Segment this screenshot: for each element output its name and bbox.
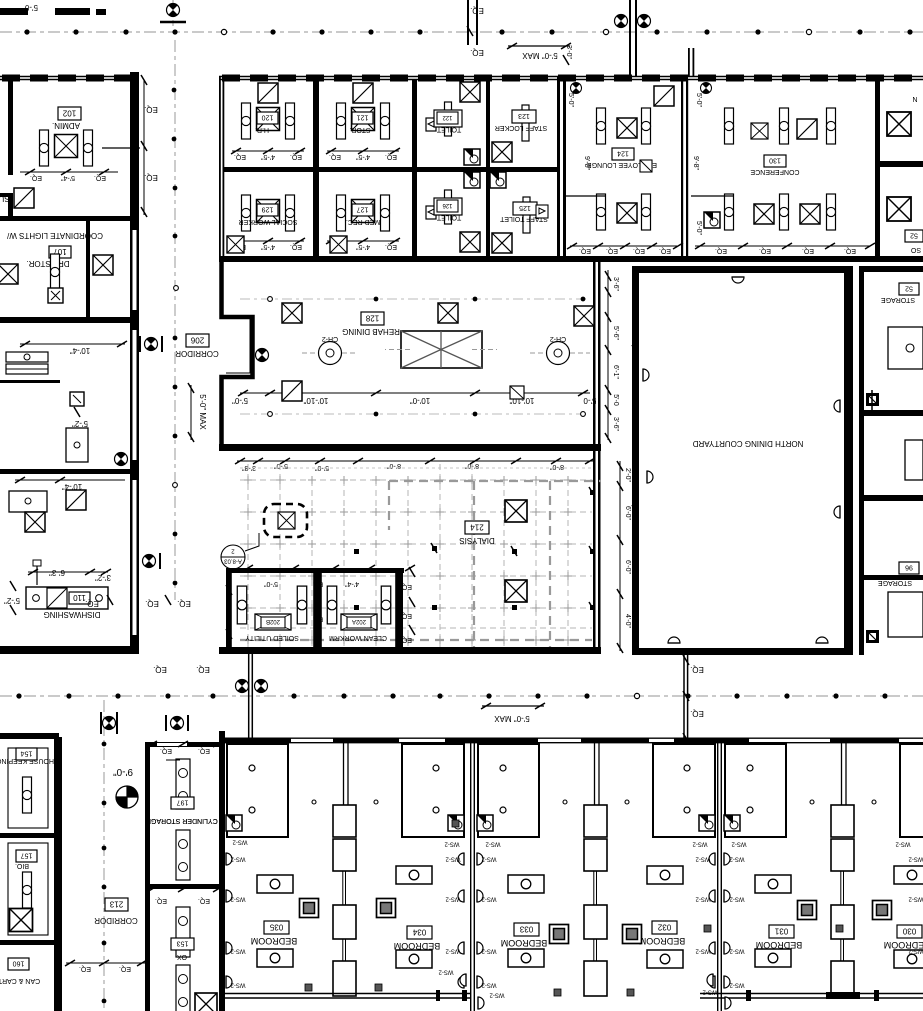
- svg-text:EQ.: EQ.: [198, 897, 210, 904]
- svg-text:031: 031: [774, 927, 788, 936]
- svg-text:WS-2: WS-2: [489, 992, 505, 998]
- svg-text:EQ.: EQ.: [94, 174, 106, 181]
- svg-text:5'-2": 5'-2": [4, 596, 20, 605]
- svg-text:EQ.: EQ.: [385, 243, 397, 250]
- svg-text:153: 153: [177, 940, 189, 947]
- svg-text:5'-0": 5'-0": [567, 93, 574, 107]
- svg-text:H.R.: H.R.: [255, 126, 269, 133]
- svg-text:6'-1": 6'-1": [612, 365, 619, 379]
- svg-text:5'-0: 5'-0: [583, 396, 597, 405]
- svg-text:BEDROOM: BEDROOM: [756, 940, 803, 950]
- svg-text:WS-2: WS-2: [908, 948, 923, 954]
- svg-text:CORRIDOR: CORRIDOR: [94, 916, 138, 925]
- svg-text:WS-2: WS-2: [692, 841, 708, 847]
- svg-text:CLEAN WORKRM: CLEAN WORKRM: [329, 634, 387, 641]
- svg-text:WS-2: WS-2: [481, 982, 497, 988]
- svg-text:126: 126: [442, 202, 453, 208]
- svg-text:3'-6": 3'-6": [612, 277, 619, 291]
- svg-text:WS-2: WS-2: [908, 856, 923, 862]
- svg-text:4'-5": 4'-5": [356, 153, 370, 160]
- svg-text:122: 122: [442, 114, 453, 120]
- svg-text:206: 206: [190, 336, 204, 345]
- svg-text:123: 123: [518, 112, 530, 119]
- svg-text:STOR.: STOR.: [349, 126, 370, 133]
- svg-text:154: 154: [21, 750, 33, 757]
- svg-text:WS-2: WS-2: [695, 856, 711, 862]
- svg-text:EQ.: EQ.: [470, 48, 484, 57]
- svg-text:4'-4": 4'-4": [345, 580, 359, 587]
- svg-text:WS-2: WS-2: [729, 982, 745, 988]
- svg-text:BEDROOM: BEDROOM: [501, 938, 548, 948]
- svg-text:52: 52: [910, 232, 918, 239]
- svg-text:TOILET: TOILET: [436, 214, 461, 221]
- svg-text:SU: SU: [0, 194, 10, 203]
- svg-text:MED REC.: MED REC.: [346, 218, 380, 225]
- svg-text:EQ.: EQ.: [85, 599, 99, 608]
- svg-text:10'-0": 10'-0": [410, 396, 431, 405]
- svg-text:102: 102: [62, 109, 76, 118]
- svg-text:EQ.: EQ.: [177, 599, 191, 608]
- svg-text:EQ.: EQ.: [715, 247, 727, 254]
- svg-text:4'-0": 4'-0": [624, 614, 631, 628]
- svg-text:5'-0" MAX: 5'-0" MAX: [198, 394, 207, 430]
- svg-text:121: 121: [357, 114, 369, 121]
- svg-text:BIO.: BIO.: [15, 862, 29, 869]
- svg-text:WS-2: WS-2: [230, 948, 246, 954]
- svg-text:EQ.: EQ.: [155, 897, 167, 904]
- svg-text:SO: SO: [910, 246, 921, 253]
- svg-text:BEDROOM: BEDROOM: [394, 941, 441, 951]
- svg-text:SOCIAL WORKER: SOCIAL WORKER: [239, 218, 298, 225]
- svg-text:5'-0": 5'-0": [274, 462, 288, 469]
- svg-text:035: 035: [269, 923, 283, 932]
- svg-text:EQ.: EQ.: [119, 965, 131, 972]
- svg-text:202A: 202A: [352, 618, 366, 624]
- svg-text:WS-2: WS-2: [481, 856, 497, 862]
- svg-text:52: 52: [905, 285, 913, 292]
- svg-text:STORAGE: STORAGE: [878, 579, 912, 586]
- svg-text:6'-0": 6'-0": [624, 560, 631, 574]
- svg-text:5'-0": 5'-0": [264, 580, 278, 587]
- svg-text:5'-0" MAX: 5'-0" MAX: [494, 714, 530, 723]
- svg-text:EQ.: EQ.: [802, 247, 814, 254]
- svg-text:3'-6": 3'-6": [612, 417, 619, 431]
- svg-text:034: 034: [412, 928, 426, 937]
- svg-text:WS-2: WS-2: [445, 948, 461, 954]
- svg-text:WS-2: WS-2: [230, 856, 246, 862]
- svg-text:EQ.: EQ.: [290, 153, 302, 160]
- svg-text:EQ.: EQ.: [160, 747, 172, 754]
- svg-text:3'-0": 3'-0": [565, 45, 572, 59]
- svg-text:WS-2: WS-2: [230, 982, 246, 988]
- svg-text:EQ.: EQ.: [606, 247, 618, 254]
- svg-text:8'-0": 8'-0": [550, 463, 564, 470]
- svg-text:WS-2: WS-2: [729, 856, 745, 862]
- svg-text:STORAGE: STORAGE: [881, 296, 915, 303]
- svg-text:5'-6": 5'-6": [612, 326, 619, 340]
- svg-text:CAN & CART: CAN & CART: [0, 977, 40, 984]
- svg-text:WS-2: WS-2: [695, 948, 711, 954]
- svg-text:127: 127: [357, 206, 369, 213]
- svg-text:WS-2: WS-2: [481, 948, 497, 954]
- svg-text:5'-0: 5'-0: [612, 394, 619, 406]
- svg-text:WS-2: WS-2: [232, 839, 248, 845]
- svg-text:COORDINATE LIGHTS W/: COORDINATE LIGHTS W/: [6, 231, 103, 240]
- svg-text:EQ.: EQ.: [79, 965, 91, 972]
- svg-text:N: N: [912, 95, 917, 102]
- svg-text:EQ.: EQ.: [290, 243, 302, 250]
- svg-text:EQ.: EQ.: [659, 247, 671, 254]
- svg-text:5'-0": 5'-0": [695, 93, 702, 107]
- svg-text:EQ.: EQ.: [844, 247, 856, 254]
- svg-text:WS-2: WS-2: [445, 856, 461, 862]
- svg-text:EQ.: EQ.: [470, 6, 484, 15]
- svg-text:WS-2: WS-2: [695, 896, 711, 902]
- svg-text:5'-2": 5'-2": [72, 419, 88, 428]
- svg-text:2'-0": 2'-0": [624, 468, 631, 482]
- svg-text:CONFERENCE: CONFERENCE: [750, 168, 799, 175]
- svg-text:ADMIN.: ADMIN.: [52, 121, 80, 130]
- svg-text:STAFF LOCKER: STAFF LOCKER: [495, 124, 547, 131]
- svg-text:WS-2: WS-2: [485, 841, 501, 847]
- svg-text:OX.: OX.: [175, 953, 187, 960]
- svg-text:WS-2: WS-2: [729, 948, 745, 954]
- svg-text:9'-8": 9'-8": [583, 156, 590, 170]
- svg-text:EQ.: EQ.: [759, 247, 771, 254]
- svg-text:213: 213: [109, 900, 123, 909]
- svg-text:202B: 202B: [266, 618, 280, 624]
- svg-text:WS-2: WS-2: [444, 841, 460, 847]
- svg-text:157: 157: [21, 852, 33, 859]
- svg-text:BEDROOM: BEDROOM: [639, 936, 686, 946]
- svg-text:EQ.: EQ.: [690, 709, 704, 718]
- svg-text:WS-2: WS-2: [731, 841, 747, 847]
- svg-text:EQ.: EQ.: [633, 247, 645, 254]
- svg-text:120: 120: [262, 114, 274, 121]
- svg-text:6'-0": 6'-0": [624, 506, 631, 520]
- svg-text:96: 96: [905, 564, 913, 571]
- svg-text:EQ.: EQ.: [196, 665, 210, 674]
- svg-text:033: 033: [519, 925, 533, 934]
- svg-text:032: 032: [657, 923, 671, 932]
- svg-text:EQ.: EQ.: [153, 665, 167, 674]
- svg-text:EQ.: EQ.: [145, 599, 159, 608]
- svg-text:124: 124: [617, 150, 629, 157]
- svg-text:NORTH DINING COURTYARD: NORTH DINING COURTYARD: [692, 439, 803, 448]
- svg-text:5'-0" MAX: 5'-0" MAX: [522, 51, 558, 60]
- svg-text:10'-10": 10'-10": [303, 396, 328, 405]
- svg-text:EQ.: EQ.: [690, 665, 704, 674]
- svg-text:REHAB DINING: REHAB DINING: [342, 327, 400, 336]
- svg-text:9'-0": 9'-0": [113, 766, 133, 777]
- svg-text:128: 128: [365, 314, 379, 323]
- svg-text:EQ.: EQ.: [144, 173, 158, 182]
- svg-text:BEDROOM: BEDROOM: [251, 936, 298, 946]
- svg-text:4'-5": 4'-5": [356, 243, 370, 250]
- svg-text:EQ.: EQ.: [329, 153, 341, 160]
- svg-text:10'-4": 10'-4": [70, 346, 91, 355]
- svg-text:A-8.03: A-8.03: [224, 558, 242, 564]
- svg-text:EQ.: EQ.: [313, 616, 324, 622]
- svg-text:5'-0": 5'-0": [695, 221, 702, 235]
- svg-text:5'-4": 5'-4": [61, 174, 75, 181]
- svg-text:EQ.: EQ.: [30, 174, 42, 181]
- svg-text:CORRIDOR: CORRIDOR: [175, 349, 219, 358]
- svg-text:DISHWASHING: DISHWASHING: [43, 610, 100, 619]
- svg-text:125: 125: [519, 204, 531, 211]
- svg-text:214: 214: [470, 523, 484, 532]
- svg-text:WS-2: WS-2: [895, 841, 911, 847]
- svg-text:WS-2: WS-2: [481, 896, 497, 902]
- svg-text:EQ.: EQ.: [579, 247, 591, 254]
- svg-text:WS-2: WS-2: [438, 969, 454, 975]
- svg-text:4'-5": 4'-5": [261, 153, 275, 160]
- svg-text:197: 197: [177, 799, 189, 806]
- svg-text:WS-2: WS-2: [445, 896, 461, 902]
- svg-text:EQ.: EQ.: [234, 153, 246, 160]
- svg-text:030: 030: [902, 927, 916, 936]
- svg-text:WS-2: WS-2: [729, 896, 745, 902]
- svg-text:EQ.: EQ.: [144, 105, 158, 114]
- svg-text:4'-5": 4'-5": [261, 243, 275, 250]
- svg-text:130: 130: [769, 157, 781, 164]
- svg-text:WS-2: WS-2: [908, 896, 923, 902]
- svg-text:EQ.: EQ.: [313, 581, 324, 587]
- svg-text:9'-8": 9'-8": [692, 156, 699, 170]
- svg-text:EQ.: EQ.: [198, 747, 210, 754]
- svg-text:TOILET: TOILET: [436, 126, 461, 133]
- svg-text:SOILED UTILITY: SOILED UTILITY: [245, 634, 299, 641]
- svg-text:110: 110: [73, 593, 86, 602]
- svg-text:CYLINDER STORAGE: CYLINDER STORAGE: [146, 817, 218, 824]
- svg-text:EQ.: EQ.: [385, 153, 397, 160]
- svg-text:DRY STOR.: DRY STOR.: [26, 259, 69, 268]
- svg-text:160: 160: [13, 960, 25, 967]
- svg-text:129: 129: [262, 206, 274, 213]
- svg-text:5'-0": 5'-0": [232, 396, 248, 405]
- svg-text:WS-2: WS-2: [230, 896, 246, 902]
- svg-text:DIALYSIS: DIALYSIS: [459, 536, 494, 545]
